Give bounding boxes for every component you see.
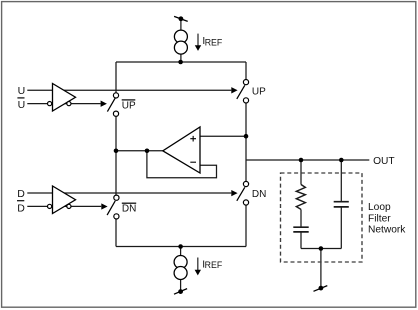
- arrow to DN-bar switch: [101, 203, 107, 209]
- svg-text:DN: DN: [122, 203, 136, 214]
- wire loop filter bottom node: [301, 248, 341, 250]
- switch DN: [237, 181, 249, 205]
- label DN-bar: [122, 203, 137, 214]
- wire right rail upper: [245, 62, 247, 80]
- wire U control line: [27, 89, 231, 91]
- wire top current source to rail: [180, 54, 182, 62]
- ground symbol bottom current source: [174, 289, 187, 295]
- wire top rail: [116, 61, 246, 63]
- op-amp U3 unity-gain buffer: [163, 127, 200, 173]
- arrow to DN switch: [231, 190, 237, 196]
- wire top supply stem: [180, 21, 182, 31]
- IREF arrow top: [195, 34, 201, 51]
- buffer U1 (U/U-bar): [53, 84, 76, 112]
- svg-text:U: U: [18, 85, 26, 97]
- junction dot op-amp output at left rail: [114, 149, 119, 154]
- arrow to UP switch: [231, 87, 237, 93]
- op-amp plus sign: [190, 136, 196, 142]
- junction dot feedback on output line: [145, 149, 150, 154]
- bubble D-bar output: [67, 204, 71, 208]
- switch UP-bar: [107, 93, 118, 116]
- wire left rail middle: [115, 116, 117, 195]
- wire cap C2 to bottom node: [340, 207, 342, 249]
- label UP-bar: [122, 100, 136, 112]
- wire op-amp output: [116, 150, 163, 152]
- svg-text:Loop: Loop: [368, 202, 391, 213]
- svg-text:D: D: [17, 202, 25, 214]
- junction dot plus input at right rail: [244, 134, 249, 139]
- junction dot top rail: [178, 60, 183, 65]
- junction dot OUT at C2 branch: [339, 158, 344, 163]
- wire cap C1 to bottom node: [300, 232, 302, 249]
- wire D-bar control line: [27, 205, 101, 207]
- label U-bar: [17, 98, 25, 111]
- buffer U2 (D/D-bar): [53, 186, 76, 214]
- svg-text:UP: UP: [252, 87, 266, 98]
- svg-text:OUT: OUT: [373, 156, 395, 167]
- wire op-amp plus input: [200, 135, 246, 137]
- switch DN-bar: [107, 195, 119, 219]
- svg-text:Network: Network: [368, 225, 406, 236]
- wire left rail upper: [115, 62, 117, 93]
- wire OUT line: [246, 159, 369, 161]
- wire D control line: [27, 192, 231, 194]
- svg-text:U: U: [18, 99, 26, 111]
- svg-text:Filter: Filter: [368, 214, 391, 225]
- current source I1 (top): [174, 30, 187, 54]
- bubble U-bar output: [67, 102, 71, 106]
- wire right rail lower: [245, 205, 247, 246]
- op-amp minus sign: [190, 161, 196, 163]
- wire resistor to cap C1: [300, 209, 302, 227]
- svg-text:REF: REF: [205, 37, 223, 47]
- svg-text:DN: DN: [252, 189, 266, 200]
- capacitor C1 plates: [293, 227, 308, 232]
- wire right rail middle: [245, 103, 247, 181]
- junction dot OUT at R1 branch: [299, 158, 304, 163]
- wire bottom rail to current source: [180, 247, 182, 256]
- bubble U-bar input: [48, 102, 52, 106]
- wire bottom current source to ground: [180, 280, 182, 291]
- label IREF top: [202, 36, 223, 47]
- wire left rail lower: [115, 219, 117, 247]
- wire loop filter left branch top: [300, 160, 302, 185]
- resistor R1 zigzag: [296, 185, 305, 210]
- label Loop Filter Network: [368, 202, 406, 236]
- wire op-amp feedback: [147, 151, 217, 178]
- bubble D-bar input: [48, 204, 52, 208]
- IREF arrow bottom: [195, 258, 201, 276]
- capacitor C2 plates: [334, 202, 349, 207]
- arrow to UP-bar switch: [101, 101, 107, 107]
- svg-text:D: D: [17, 188, 25, 200]
- label D-bar: [17, 201, 25, 215]
- ground symbol loop filter: [314, 286, 328, 292]
- loop filter dashed box: [281, 173, 363, 262]
- wire bottom rail: [116, 246, 246, 248]
- svg-text:UP: UP: [122, 101, 136, 112]
- svg-text:REF: REF: [205, 260, 223, 270]
- junction dot bottom rail: [178, 244, 183, 249]
- supply symbol top: [174, 16, 188, 21]
- switch UP: [237, 80, 249, 104]
- label IREF bottom: [202, 259, 223, 270]
- wire loop filter right branch top: [340, 160, 342, 202]
- wire loop filter ground stem: [320, 249, 322, 289]
- current source I2 (bottom): [174, 256, 187, 280]
- wire U-bar control line: [27, 103, 100, 105]
- junction dot loop filter bottom node: [319, 246, 324, 251]
